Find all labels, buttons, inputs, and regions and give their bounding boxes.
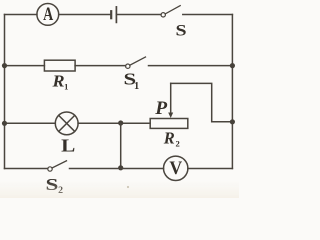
svg-text:2: 2 bbox=[175, 139, 179, 149]
wire right vertical bbox=[231, 15, 233, 169]
wire voltmeter to right bbox=[188, 168, 233, 170]
wire ammeter to battery bbox=[59, 14, 110, 16]
node junction left row2 bbox=[2, 63, 7, 68]
svg-text:1: 1 bbox=[134, 81, 139, 92]
svg-text:R: R bbox=[52, 72, 65, 90]
node junction mid bottom row bbox=[118, 165, 123, 170]
ammeter A bbox=[37, 3, 59, 25]
node junction mid lamp row bbox=[118, 120, 123, 125]
wire top row left bbox=[5, 14, 37, 16]
battery bbox=[111, 7, 116, 23]
node junction left lamp row bbox=[2, 121, 7, 126]
wire R1 to S1 bbox=[75, 65, 126, 67]
svg-text:R: R bbox=[163, 128, 175, 147]
resistor R1 bbox=[44, 60, 75, 91]
switch S1 bbox=[123, 57, 232, 92]
svg-text:P: P bbox=[154, 98, 167, 118]
wire mid vertical bbox=[120, 123, 122, 168]
switch S2 bbox=[45, 161, 163, 196]
slider P arrow bbox=[154, 83, 173, 118]
wire battery to switch S bbox=[116, 14, 161, 16]
node junction right row2 bbox=[230, 63, 235, 68]
svg-text:S: S bbox=[175, 21, 186, 39]
lamp L bbox=[55, 112, 78, 156]
wire slider loop bbox=[171, 83, 233, 121]
voltmeter V bbox=[164, 156, 188, 180]
svg-text:1: 1 bbox=[64, 81, 68, 91]
wire bottom left bbox=[5, 168, 48, 170]
wire lamp to R2 bbox=[78, 122, 150, 124]
svg-text:L: L bbox=[61, 136, 75, 156]
switch S bbox=[161, 6, 232, 39]
svg-text:V: V bbox=[169, 158, 183, 179]
wire row2 left bbox=[5, 65, 45, 67]
svg-text:A: A bbox=[43, 3, 53, 25]
wire lamp row left bbox=[5, 122, 56, 124]
wire left vertical bbox=[4, 15, 6, 169]
node junction right slider wire bbox=[230, 119, 235, 124]
rheostat R2 bbox=[150, 119, 188, 149]
